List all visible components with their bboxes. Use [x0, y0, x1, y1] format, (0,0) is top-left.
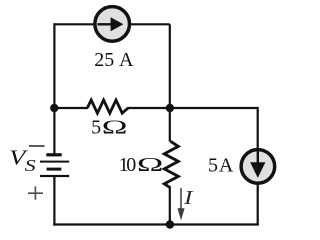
wire bottom: [53, 223, 258, 225]
svg-text:0: 0: [126, 154, 136, 176]
wire inner vertical lower: [169, 188, 171, 225]
node dot left middle: [50, 104, 58, 112]
wire middle left stub: [54, 107, 88, 109]
svg-text:I: I: [183, 187, 194, 209]
current arrow I: [180, 188, 182, 211]
battery VS plate short thick 1: [46, 153, 61, 156]
wire right vertical: [257, 107, 259, 225]
current source 5A circle: [241, 150, 275, 184]
label minus sign: [29, 145, 45, 147]
svg-text:Ω: Ω: [137, 153, 163, 175]
resistor R 10ohm zigzag: [164, 141, 178, 188]
svg-text:A: A: [119, 49, 134, 71]
wire top: left corner to inner-right corner: [54, 23, 169, 25]
svg-text:25: 25: [94, 49, 114, 71]
wire left vertical upper: [53, 23, 55, 153]
svg-text:Ω: Ω: [102, 116, 128, 138]
svg-text:S: S: [25, 156, 36, 175]
battery VS plate long 1: [40, 161, 69, 163]
node dot bottom: [166, 220, 174, 228]
svg-text:5: 5: [91, 116, 101, 138]
svg-text:A: A: [219, 155, 234, 177]
current source 25A arrow: [98, 23, 114, 25]
label plus sign: [28, 192, 43, 194]
battery VS plate long 2: [40, 175, 69, 177]
current source 25A circle: [95, 7, 130, 42]
battery VS plate short thick 2: [47, 168, 62, 171]
svg-text:5: 5: [208, 155, 218, 177]
wire inner vertical upper: [169, 24, 171, 141]
wire left vertical lower: [53, 177, 55, 226]
wire middle-right to outer right: [170, 107, 258, 109]
current source 5A arrow: [257, 151, 259, 167]
resistor R 5ohm zigzag: [87, 100, 128, 113]
wire middle right stub: [128, 107, 170, 109]
node dot center middle: [166, 104, 174, 112]
